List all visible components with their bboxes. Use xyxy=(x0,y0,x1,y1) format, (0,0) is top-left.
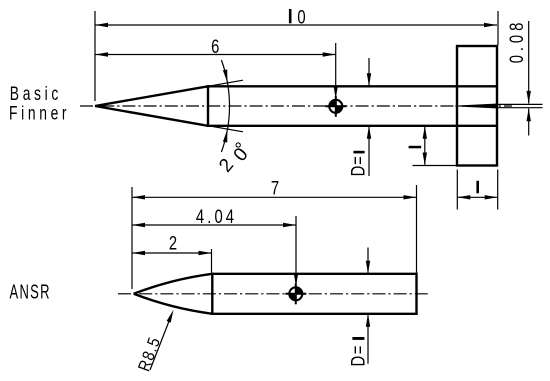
svg-text:6: 6 xyxy=(211,36,219,57)
svg-text:D=: D= xyxy=(348,344,369,366)
svg-text:2: 2 xyxy=(169,233,177,254)
svg-text:7: 7 xyxy=(271,178,279,199)
svg-text:0.08: 0.08 xyxy=(506,19,527,63)
svg-text:0: 0 xyxy=(297,7,305,28)
svg-text:D=: D= xyxy=(348,155,369,176)
svg-text:Basic: Basic xyxy=(10,83,62,105)
svg-text:ANSR: ANSR xyxy=(10,281,51,304)
svg-text:Finner: Finner xyxy=(9,102,70,124)
svg-text:4.04: 4.04 xyxy=(196,206,237,227)
